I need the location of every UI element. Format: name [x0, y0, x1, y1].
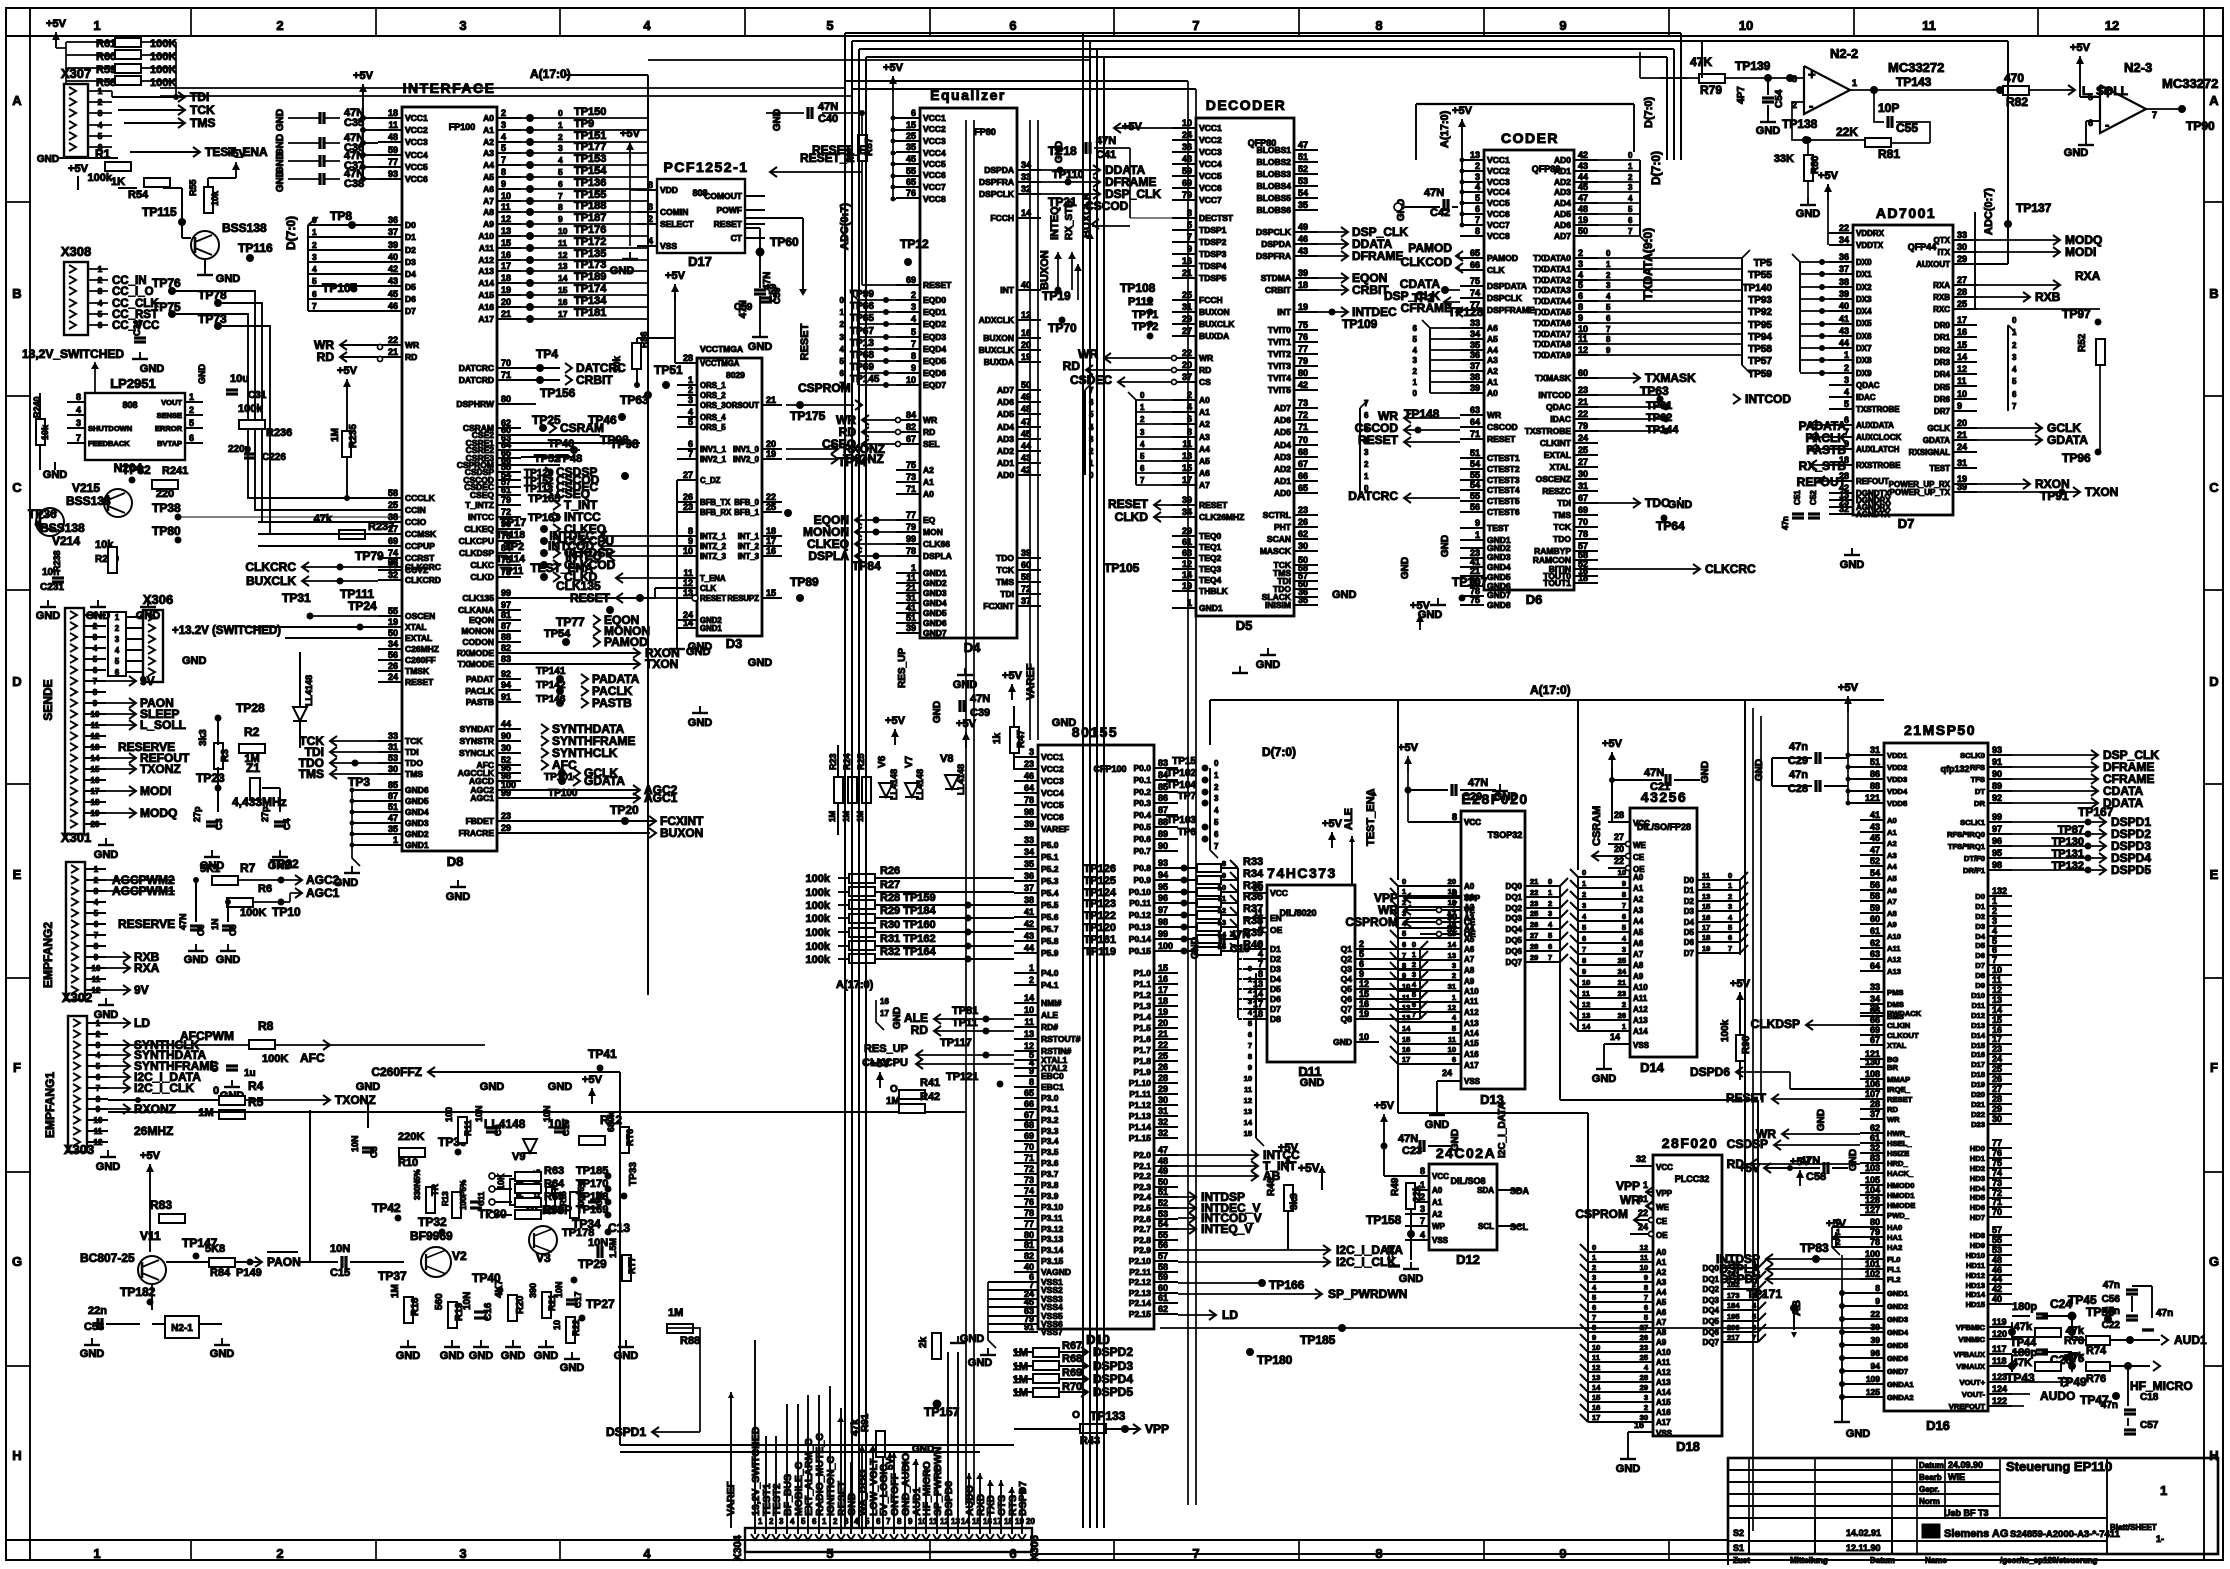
svg-text:8: 8 [1375, 18, 1382, 33]
svg-text:C15: C15 [330, 1267, 350, 1279]
svg-text:GND: GND [1052, 717, 1077, 729]
svg-text:/geor/to_ep120/steuerung: /geor/to_ep120/steuerung [2000, 1556, 2097, 1565]
svg-text:35: 35 [1298, 595, 1308, 605]
svg-text:A14: A14 [1656, 1388, 1671, 1397]
svg-text:62: 62 [1870, 938, 1880, 948]
svg-text:DSPD4: DSPD4 [1093, 1372, 1133, 1386]
svg-text:Usb BF T3: Usb BF T3 [1944, 1508, 1989, 1518]
svg-text:DR: DR [1974, 799, 1985, 808]
svg-text:DSPFRA: DSPFRA [1256, 251, 1291, 261]
svg-text:99: 99 [1992, 812, 2002, 822]
svg-text:INISIM: INISIM [1265, 600, 1291, 610]
svg-text:WIE: WIE [1948, 1472, 1965, 1482]
svg-text:WP: WP [1432, 1222, 1446, 1231]
svg-text:6: 6 [1452, 1055, 1456, 1064]
svg-text:D7: D7 [1684, 949, 1695, 958]
svg-text:11: 11 [1957, 376, 1967, 386]
svg-text:A3: A3 [1464, 913, 1475, 922]
svg-text:79: 79 [1578, 421, 1588, 431]
svg-text:P5.5: P5.5 [1041, 900, 1059, 910]
svg-text:GND: GND [36, 610, 61, 622]
svg-text:2: 2 [648, 214, 653, 224]
svg-text:INV1_0: INV1_0 [733, 445, 760, 454]
svg-text:A12: A12 [1656, 1368, 1671, 1377]
svg-text:D7: D7 [1898, 516, 1915, 531]
svg-text:SHUTDOWN: SHUTDOWN [88, 424, 132, 433]
svg-text:TP131: TP131 [2052, 848, 2084, 860]
svg-text:6: 6 [1592, 1303, 1596, 1312]
svg-text:87: 87 [1158, 805, 1168, 815]
svg-text:R34: R34 [1243, 868, 1264, 880]
svg-text:3: 3 [115, 635, 120, 644]
svg-text:60: 60 [1870, 914, 1880, 924]
svg-text:GND: GND [469, 1350, 494, 1362]
svg-text:PLCC32: PLCC32 [1675, 1174, 1710, 1184]
svg-text:3: 3 [312, 252, 317, 262]
svg-text:TXONZ: TXONZ [140, 762, 181, 776]
svg-text:13: 13 [91, 743, 100, 752]
svg-text:FP100: FP100 [449, 122, 476, 132]
svg-text:GND7: GND7 [1887, 1367, 1908, 1376]
svg-text:+5V: +5V [337, 365, 358, 377]
svg-text:6: 6 [96, 1073, 101, 1082]
svg-text:7: 7 [1258, 959, 1263, 969]
svg-text:25: 25 [1530, 909, 1538, 918]
svg-text:TP47: TP47 [2080, 1393, 2109, 1407]
svg-text:1: 1 [1592, 1253, 1596, 1262]
svg-text:RD: RD [911, 1023, 929, 1037]
svg-text:C23: C23 [1402, 1145, 1422, 1157]
svg-text:TXDATA8: TXDATA8 [1533, 339, 1571, 349]
svg-text:DSPDATA: DSPDATA [1487, 281, 1527, 291]
svg-text:13: 13 [1253, 979, 1263, 989]
svg-text:DSPD6: DSPD6 [1690, 1065, 1730, 1079]
svg-text:IRQE_: IRQE_ [1887, 1085, 1911, 1094]
svg-text:16: 16 [1182, 256, 1192, 266]
svg-text:45: 45 [1870, 833, 1880, 843]
svg-text:32: 32 [1158, 1117, 1168, 1127]
svg-text:OSCENZ: OSCENZ [1536, 474, 1571, 484]
svg-text:43: 43 [388, 276, 398, 286]
svg-text:36: 36 [1839, 252, 1849, 262]
svg-text:TP182: TP182 [120, 1285, 156, 1299]
svg-text:VCC4: VCC4 [1199, 159, 1222, 169]
svg-text:4: 4 [1628, 194, 1633, 203]
svg-text:38: 38 [1470, 372, 1480, 382]
svg-text:4: 4 [312, 264, 317, 274]
svg-text:TP169: TP169 [576, 1204, 608, 1216]
svg-text:6: 6 [840, 369, 845, 378]
svg-text:INTZ_1: INTZ_1 [700, 532, 727, 541]
svg-text:LL4148: LL4148 [889, 769, 899, 800]
svg-text:R22: R22 [571, 1319, 581, 1336]
svg-text:104: 104 [1865, 1185, 1880, 1195]
svg-text:3k3: 3k3 [1289, 1193, 1300, 1210]
svg-text:A(17:0): A(17:0) [1530, 683, 1571, 697]
svg-text:9: 9 [501, 179, 506, 189]
svg-text:D7: D7 [1270, 1004, 1281, 1014]
svg-text:32: 32 [1636, 1154, 1646, 1164]
svg-text:28: 28 [388, 557, 398, 567]
svg-text:3: 3 [1548, 909, 1552, 918]
svg-text:D7: D7 [405, 306, 416, 316]
svg-text:8: 8 [1622, 890, 1626, 899]
svg-text:80: 80 [1870, 1217, 1880, 1227]
svg-text:10: 10 [1618, 868, 1626, 877]
svg-text:+5V: +5V [1738, 1161, 1760, 1175]
svg-text:28: 28 [683, 353, 693, 363]
svg-text:43: 43 [1870, 822, 1880, 832]
svg-text:25: 25 [1578, 445, 1588, 455]
svg-text:79: 79 [1298, 356, 1308, 366]
svg-text:A9: A9 [483, 219, 494, 229]
svg-text:2: 2 [1622, 1000, 1626, 1009]
svg-text:P3.5: P3.5 [1041, 1147, 1059, 1157]
svg-text:R3: R3 [220, 749, 231, 762]
svg-text:S2: S2 [1733, 1528, 1744, 1538]
svg-text:47: 47 [388, 813, 398, 823]
svg-text:DSPDA: DSPDA [984, 165, 1014, 175]
svg-text:VAREF: VAREF [1041, 824, 1069, 834]
svg-text:OSCEN: OSCEN [405, 611, 435, 621]
svg-text:VDDRX: VDDRX [1856, 229, 1885, 238]
svg-text:C57: C57 [2140, 1420, 2159, 1431]
svg-text:RD: RD [405, 352, 417, 362]
svg-text:RXB: RXB [1933, 293, 1950, 302]
svg-text:2: 2 [115, 624, 120, 633]
svg-text:C18: C18 [2140, 1392, 2159, 1403]
svg-text:X308: X308 [61, 244, 91, 259]
svg-text:4: 4 [1578, 270, 1583, 280]
svg-text:GND: GND [1425, 1119, 1450, 1131]
svg-text:1: 1 [1140, 403, 1145, 412]
svg-text:A1: A1 [1487, 377, 1498, 387]
svg-text:GND: GND [614, 1350, 639, 1362]
svg-text:VFBAUX: VFBAUX [1954, 1350, 1985, 1359]
svg-text:EQD5: EQD5 [923, 356, 946, 366]
svg-text:CLK: CLK [1487, 265, 1505, 275]
svg-text:BFB_RX: BFB_RX [700, 508, 732, 517]
svg-text:20: 20 [1182, 360, 1192, 370]
svg-text:VSS: VSS [1633, 1041, 1650, 1050]
svg-text:BUXCLK: BUXCLK [246, 574, 296, 588]
svg-text:D(7:0): D(7:0) [284, 216, 298, 250]
svg-text:42: 42 [1298, 380, 1308, 390]
svg-text:GND: GND [560, 1362, 585, 1374]
svg-text:GND1: GND1 [405, 840, 429, 850]
svg-text:10: 10 [558, 226, 568, 236]
svg-text:A4: A4 [1487, 345, 1498, 355]
svg-text:1: 1 [115, 613, 120, 622]
svg-text:P1.15: P1.15 [1129, 1133, 1151, 1143]
svg-text:10N: 10N [474, 1105, 484, 1122]
svg-text:D3: D3 [405, 257, 416, 267]
svg-text:50: 50 [1578, 226, 1588, 236]
svg-text:AD3: AD3 [1274, 452, 1291, 462]
svg-text:TXDATA3: TXDATA3 [1533, 285, 1571, 295]
svg-text:GND: GND [968, 1357, 993, 1369]
svg-text:DMS: DMS [1887, 1000, 1904, 1009]
svg-text:VCC8: VCC8 [1487, 231, 1510, 241]
svg-text:A3: A3 [1199, 432, 1210, 442]
svg-text:TP122: TP122 [1084, 910, 1116, 922]
svg-text:0: 0 [1582, 868, 1586, 877]
svg-text:78: 78 [906, 546, 916, 556]
svg-text:P1.13: P1.13 [1129, 1111, 1151, 1121]
svg-text:2: 2 [1606, 271, 1611, 280]
svg-text:2: 2 [312, 240, 317, 250]
svg-text:2: 2 [1844, 363, 1849, 373]
svg-text:GND: GND [446, 891, 471, 903]
svg-text:R81: R81 [1878, 147, 1900, 161]
svg-text:TP29: TP29 [578, 1257, 607, 1271]
svg-text:LP2951: LP2951 [110, 376, 156, 391]
svg-text:OE: OE [1270, 925, 1283, 935]
svg-text:GCLK: GCLK [1927, 424, 1950, 433]
svg-text:TP128: TP128 [1448, 305, 1484, 319]
svg-text:TP59: TP59 [1748, 369, 1772, 380]
svg-text:4: 4 [94, 898, 99, 907]
svg-text:CSCOD: CSCOD [1487, 422, 1518, 432]
svg-text:R33: R33 [1243, 856, 1263, 868]
svg-text:TP25: TP25 [532, 413, 561, 427]
svg-text:79: 79 [1182, 190, 1192, 200]
svg-text:GND4: GND4 [405, 807, 429, 817]
svg-text:11: 11 [501, 202, 511, 212]
svg-text:82: 82 [906, 422, 916, 432]
svg-text:31: 31 [388, 742, 398, 752]
svg-text:73: 73 [1992, 1178, 2002, 1188]
svg-text:TP27: TP27 [586, 1297, 615, 1311]
svg-text:D6: D6 [1526, 592, 1543, 607]
svg-text:46: 46 [1024, 771, 1034, 781]
svg-text:A5: A5 [1199, 456, 1210, 466]
svg-text:16: 16 [766, 546, 776, 556]
svg-text:D17: D17 [688, 254, 712, 269]
svg-text:R11: R11 [463, 1120, 473, 1136]
svg-text:1: 1 [1214, 771, 1219, 780]
svg-text:ORS_2: ORS_2 [700, 391, 726, 400]
svg-text:A4: A4 [1633, 917, 1644, 926]
svg-text:1: 1 [911, 563, 916, 573]
svg-text:BLOBS1: BLOBS1 [1257, 145, 1292, 155]
svg-text:4: 4 [1258, 949, 1263, 959]
svg-text:DX2: DX2 [1856, 283, 1872, 292]
svg-text:10: 10 [1992, 965, 2002, 975]
svg-text:FCXINT: FCXINT [983, 601, 1015, 611]
svg-text:11: 11 [92, 975, 101, 984]
svg-text:ADC(0:7): ADC(0:7) [1983, 188, 1995, 235]
svg-text:CTEST3: CTEST3 [1487, 475, 1520, 485]
svg-text:16: 16 [1359, 999, 1369, 1009]
svg-text:9: 9 [1475, 518, 1480, 528]
svg-text:DX6: DX6 [1856, 332, 1872, 341]
svg-text:0: 0 [558, 108, 563, 118]
svg-text:P0.0: P0.0 [1134, 763, 1152, 773]
svg-text:62: 62 [1870, 1123, 1880, 1133]
svg-text:62: 62 [1158, 1304, 1168, 1314]
svg-text:3: 3 [1606, 281, 1611, 290]
svg-text:BUXON: BUXON [983, 333, 1014, 343]
svg-text:55: 55 [906, 166, 916, 176]
svg-text:67: 67 [906, 434, 916, 444]
svg-text:8: 8 [94, 942, 99, 951]
svg-text:24: 24 [1182, 130, 1192, 140]
svg-text:4: 4 [115, 646, 120, 655]
svg-text:23: 23 [1640, 1343, 1648, 1352]
svg-text:21: 21 [1870, 1003, 1880, 1013]
svg-text:GND: GND [480, 1081, 505, 1093]
svg-text:R52: R52 [2077, 333, 2088, 352]
svg-text:47n: 47n [1789, 741, 1808, 753]
svg-text:A5: A5 [1656, 1298, 1667, 1307]
svg-text:A11: A11 [1633, 994, 1648, 1003]
svg-text:29: 29 [1640, 1383, 1648, 1392]
svg-text:VAGND: VAGND [1041, 1267, 1071, 1277]
svg-text:128: 128 [1865, 1195, 1880, 1205]
svg-text:8: 8 [1402, 961, 1406, 970]
svg-text:DX0: DX0 [1856, 258, 1872, 267]
svg-text:99: 99 [501, 788, 511, 798]
svg-text:40: 40 [388, 252, 398, 262]
svg-text:GND6: GND6 [1887, 1354, 1908, 1363]
svg-text:DT: DT [1975, 787, 1985, 796]
svg-text:TP117: TP117 [940, 1037, 972, 1049]
svg-text:+5V: +5V [1374, 1100, 1395, 1112]
svg-text:BUXCLK: BUXCLK [1199, 319, 1235, 329]
svg-text:3: 3 [76, 418, 81, 428]
svg-text:V215: V215 [72, 481, 100, 495]
svg-text:RXONZ: RXONZ [134, 1102, 176, 1116]
svg-text:26: 26 [1992, 1074, 2002, 1084]
svg-text:C58: C58 [1806, 1171, 1826, 1183]
svg-text:VCC: VCC [1432, 1172, 1449, 1181]
svg-text:AD0: AD0 [1554, 155, 1571, 165]
svg-text:TP46: TP46 [588, 413, 617, 427]
svg-text:18: 18 [1702, 933, 1710, 942]
svg-text:RESET: RESET [714, 219, 743, 229]
svg-text:A15: A15 [1656, 1398, 1671, 1407]
svg-text:P2.12: P2.12 [1129, 1277, 1151, 1287]
svg-text:37: 37 [1024, 883, 1034, 893]
svg-text:GND: GND [1440, 535, 1451, 557]
svg-text:45: 45 [906, 154, 916, 164]
svg-text:TDO: TDO [1645, 496, 1670, 510]
svg-text:34: 34 [1182, 507, 1192, 517]
svg-text:26MHZ: 26MHZ [134, 1124, 173, 1138]
svg-text:A3: A3 [1887, 851, 1897, 860]
svg-text:Datum: Datum [1919, 1461, 1944, 1470]
svg-text:CC_I_O: CC_I_O [112, 286, 154, 298]
svg-text:7: 7 [1420, 1216, 1425, 1226]
svg-text:R84: R84 [210, 1267, 231, 1279]
svg-text:108: 108 [1865, 1069, 1880, 1079]
svg-text:9: 9 [1559, 18, 1566, 33]
svg-text:9: 9 [1582, 967, 1586, 976]
svg-text:C17: C17 [573, 1291, 583, 1308]
svg-text:+: + [2104, 86, 2112, 101]
svg-text:TMS: TMS [405, 769, 423, 779]
svg-text:4: 4 [2012, 365, 2017, 374]
svg-text:45: 45 [1578, 182, 1588, 192]
svg-text:5: 5 [1413, 335, 1418, 344]
svg-text:1M: 1M [842, 811, 851, 822]
svg-text:24.09.90: 24.09.90 [1948, 1460, 1983, 1470]
svg-text:6: 6 [1140, 464, 1145, 473]
svg-text:D19: D19 [1971, 1080, 1985, 1089]
svg-text:DQ5: DQ5 [1506, 936, 1523, 945]
svg-text:VDDTX: VDDTX [1856, 241, 1884, 250]
svg-text:+5V: +5V [885, 715, 906, 727]
svg-text:Gepr.: Gepr. [1919, 1485, 1939, 1494]
svg-text:7: 7 [76, 433, 81, 443]
svg-text:2: 2 [501, 108, 506, 118]
svg-text:C26MHZ: C26MHZ [405, 644, 439, 654]
svg-text:A16: A16 [478, 302, 494, 312]
svg-text:TP133: TP133 [1090, 1409, 1126, 1423]
svg-text:30: 30 [1298, 541, 1308, 551]
svg-text:26: 26 [1298, 517, 1308, 527]
svg-text:VCC4: VCC4 [1041, 788, 1064, 798]
svg-text:HD3: HD3 [1970, 1174, 1985, 1183]
svg-text:SCAN: SCAN [1267, 534, 1291, 544]
svg-text:FP80: FP80 [974, 127, 996, 137]
svg-text:TP64: TP64 [1656, 519, 1685, 533]
svg-text:TP166: TP166 [1269, 1278, 1305, 1292]
svg-text:VCC5: VCC5 [1199, 171, 1222, 181]
svg-text:DSPD2: DSPD2 [1093, 1345, 1133, 1359]
svg-text:SENSE: SENSE [157, 411, 182, 420]
svg-text:INV1_1: INV1_1 [700, 445, 727, 454]
svg-text:TP51: TP51 [654, 363, 683, 377]
svg-text:AD5: AD5 [1274, 427, 1291, 437]
svg-text:T_INTZ: T_INTZ [465, 500, 494, 510]
svg-text:DR/F1: DR/F1 [1963, 866, 1986, 875]
svg-text:10N: 10N [554, 1281, 564, 1298]
svg-text:Bearb: Bearb [1919, 1473, 1942, 1482]
svg-text:VCC4: VCC4 [1487, 187, 1510, 197]
svg-text:LL4148: LL4148 [956, 764, 966, 795]
svg-text:P4.1: P4.1 [1041, 980, 1059, 990]
svg-text:V7: V7 [904, 755, 915, 768]
svg-text:HD5: HD5 [1970, 1193, 1986, 1202]
svg-text:GDATA: GDATA [584, 774, 625, 788]
IC D10 80155 microcontroller CFP100 [1014, 724, 1178, 1347]
svg-text:+5V: +5V [1322, 818, 1343, 830]
svg-text:VCCTMGA: VCCTMGA [700, 359, 740, 368]
svg-text:VOUT-: VOUT- [1962, 1390, 1986, 1399]
svg-text:DX7: DX7 [1856, 344, 1872, 353]
svg-text:C7: C7 [210, 1060, 220, 1072]
svg-text:217: 217 [1727, 1333, 1740, 1342]
svg-text:13: 13 [558, 261, 568, 271]
svg-text:31: 31 [1578, 481, 1588, 491]
svg-text:6: 6 [1728, 933, 1732, 942]
svg-text:CTEST6: CTEST6 [1487, 507, 1520, 517]
svg-text:6: 6 [1606, 314, 1611, 323]
svg-text:INTCOD: INTCOD [1538, 390, 1571, 400]
svg-text:A1: A1 [1887, 828, 1897, 837]
svg-text:RXA: RXA [1933, 281, 1950, 290]
svg-text:55: 55 [1992, 1235, 2002, 1245]
svg-text:TP11: TP11 [500, 566, 524, 577]
svg-text:2: 2 [1628, 173, 1633, 182]
svg-text:10: 10 [91, 710, 100, 719]
svg-text:HRD_: HRD_ [1887, 1159, 1908, 1168]
svg-text:1M: 1M [828, 811, 837, 822]
svg-text:34: 34 [388, 639, 398, 649]
svg-text:29: 29 [1182, 526, 1192, 536]
